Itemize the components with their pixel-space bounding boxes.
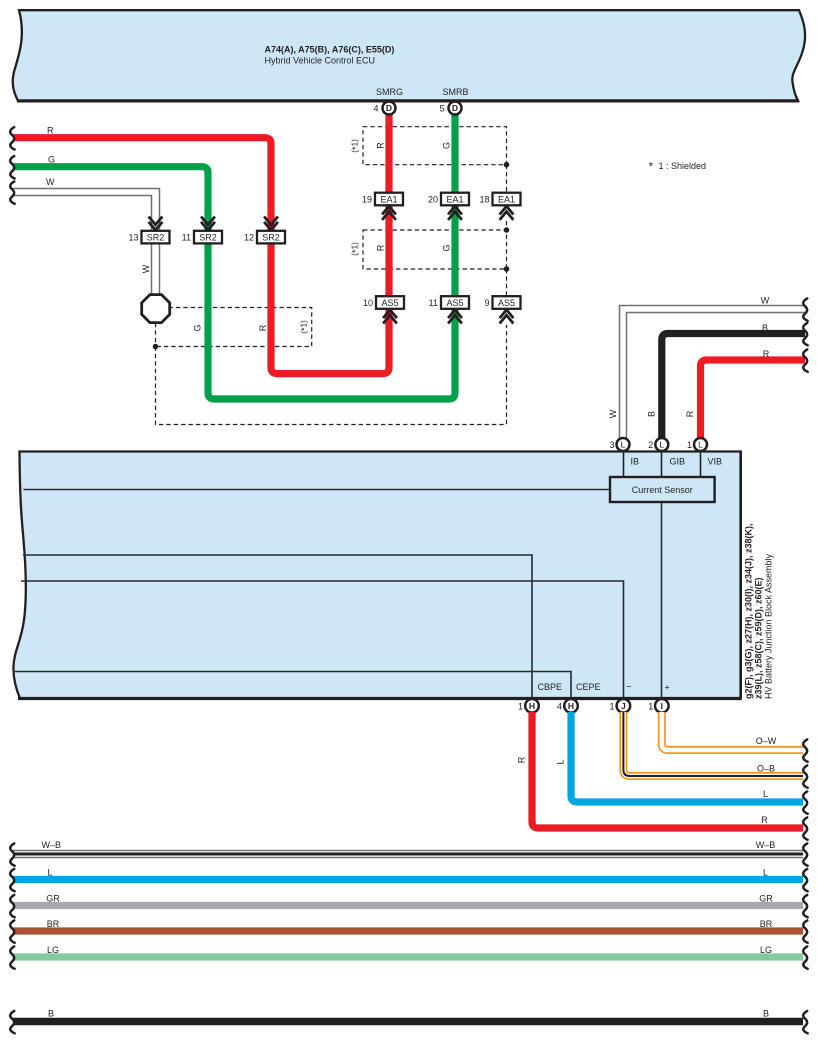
svg-text:Current Sensor: Current Sensor — [632, 485, 693, 495]
svg-text:W: W — [46, 177, 55, 187]
svg-text:BR: BR — [47, 919, 60, 929]
svg-text:I: I — [661, 701, 663, 711]
svg-text:GIB: GIB — [670, 457, 686, 467]
svg-text:BR: BR — [760, 919, 773, 929]
svg-text:CEPE: CEPE — [576, 682, 601, 692]
svg-text:GR: GR — [46, 894, 60, 904]
svg-text:SR2: SR2 — [262, 232, 280, 242]
svg-text:CBPE: CBPE — [538, 682, 563, 692]
svg-text:4: 4 — [557, 702, 562, 712]
svg-text:G: G — [442, 142, 452, 149]
svg-text:HV Battery Junction Block Asse: HV Battery Junction Block Assembly — [764, 553, 774, 699]
svg-text:B: B — [48, 1009, 54, 1019]
svg-text:G: G — [48, 155, 55, 165]
svg-text:W: W — [608, 409, 618, 418]
svg-text:O–B: O–B — [757, 764, 775, 774]
svg-text:(*1): (*1) — [300, 320, 311, 334]
svg-text:L: L — [698, 440, 703, 450]
svg-text:G: G — [193, 324, 203, 331]
svg-text:L: L — [763, 789, 768, 799]
svg-text:4: 4 — [373, 104, 378, 114]
svg-text:1 : Shielded: 1 : Shielded — [659, 161, 707, 171]
svg-text:*: * — [649, 162, 654, 174]
svg-text:SMRG: SMRG — [376, 87, 403, 97]
svg-text:R: R — [763, 349, 770, 359]
svg-text:H: H — [529, 701, 535, 711]
svg-text:10: 10 — [363, 298, 373, 308]
svg-text:R: R — [685, 410, 695, 417]
svg-text:13: 13 — [128, 232, 138, 242]
svg-text:R: R — [761, 815, 768, 825]
svg-text:1: 1 — [609, 702, 614, 712]
svg-text:R: R — [376, 244, 386, 251]
svg-text:SMRB: SMRB — [442, 87, 468, 97]
svg-text:IB: IB — [631, 457, 640, 467]
svg-text:EA1: EA1 — [446, 194, 463, 204]
svg-text:L: L — [47, 868, 52, 878]
svg-text:D: D — [452, 103, 458, 113]
svg-text:g2(F), g3(G), z27(H), z30(I),: g2(F), g3(G), z27(H), z30(I), z34(J), z3… — [744, 523, 754, 699]
svg-text:W: W — [761, 296, 770, 306]
svg-text:B: B — [763, 1009, 769, 1019]
svg-text:2: 2 — [648, 440, 653, 450]
svg-text:L: L — [621, 440, 626, 450]
svg-text:A74(A), A75(B), A76(C), E55(D): A74(A), A75(B), A76(C), E55(D) — [265, 45, 395, 55]
svg-text:G: G — [442, 244, 452, 251]
svg-text:J: J — [621, 701, 626, 711]
svg-text:5: 5 — [439, 104, 444, 114]
svg-text:VIB: VIB — [708, 457, 723, 467]
svg-text:AS5: AS5 — [446, 298, 463, 308]
svg-text:L: L — [659, 440, 664, 450]
svg-text:W: W — [141, 264, 151, 273]
svg-text:H: H — [568, 701, 574, 711]
svg-text:z39(L), z58(C), z59(D), z60(E): z39(L), z58(C), z59(D), z60(E) — [754, 577, 764, 699]
svg-text:R: R — [517, 756, 527, 763]
svg-text:11: 11 — [182, 232, 191, 242]
svg-text:11: 11 — [429, 298, 438, 308]
svg-text:EA1: EA1 — [380, 194, 397, 204]
svg-text:B: B — [762, 323, 768, 333]
svg-text:D: D — [386, 103, 392, 113]
svg-text:1: 1 — [518, 702, 523, 712]
svg-text:GR: GR — [759, 894, 773, 904]
svg-text:19: 19 — [362, 194, 372, 204]
svg-text:AS5: AS5 — [498, 298, 515, 308]
svg-text:1: 1 — [687, 440, 692, 450]
svg-text:18: 18 — [479, 194, 489, 204]
svg-text:O–W: O–W — [756, 736, 777, 746]
svg-text:W–B: W–B — [756, 840, 776, 850]
svg-text:+: + — [665, 683, 670, 693]
svg-text:AS5: AS5 — [381, 298, 398, 308]
svg-text:(*1): (*1) — [351, 139, 362, 153]
svg-text:Hybrid Vehicle Control ECU: Hybrid Vehicle Control ECU — [265, 56, 376, 66]
svg-text:20: 20 — [428, 194, 438, 204]
svg-text:3: 3 — [609, 440, 614, 450]
svg-text:L: L — [763, 868, 768, 878]
svg-text:SR2: SR2 — [147, 232, 165, 242]
svg-text:B: B — [647, 411, 657, 417]
svg-text:EA1: EA1 — [498, 194, 515, 204]
svg-text:L: L — [556, 759, 566, 764]
svg-text:SR2: SR2 — [199, 232, 217, 242]
svg-text:LG: LG — [47, 945, 59, 955]
svg-text:LG: LG — [760, 945, 772, 955]
svg-text:R: R — [47, 126, 54, 136]
svg-text:R: R — [258, 324, 268, 331]
svg-text:9: 9 — [484, 298, 489, 308]
svg-text:12: 12 — [244, 232, 254, 242]
svg-text:(*1): (*1) — [351, 242, 362, 256]
svg-text:−: − — [626, 682, 631, 692]
svg-text:R: R — [376, 142, 386, 149]
svg-text:W–B: W–B — [42, 840, 62, 850]
svg-text:1: 1 — [648, 702, 653, 712]
